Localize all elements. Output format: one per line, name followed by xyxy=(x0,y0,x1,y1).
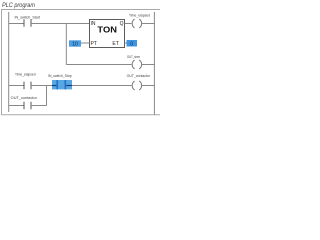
svg-text:Time_elapsed: Time_elapsed xyxy=(15,73,36,77)
svg-text:OUT_contactor: OUT_contactor xyxy=(11,96,38,100)
wire OUT_siren branch xyxy=(66,64,131,66)
svg-text:TON: TON xyxy=(97,25,117,35)
wire rung2 right xyxy=(72,85,132,87)
svg-text:OUT_siren: OUT_siren xyxy=(127,55,140,59)
svg-text:10: 10 xyxy=(72,42,78,48)
frame xyxy=(2,10,161,116)
contact IN_switch_Stop highlighted xyxy=(52,80,72,89)
wire rung1 left xyxy=(9,23,24,25)
value 0 box xyxy=(127,40,138,47)
coil OUT_siren xyxy=(132,60,134,69)
wire Q stub xyxy=(125,23,132,25)
left rail xyxy=(8,12,10,112)
wire coil1 to rail xyxy=(142,23,155,25)
wire ET stub xyxy=(125,42,127,44)
wire rung2 mid xyxy=(31,85,52,87)
wire siren coil to rail xyxy=(142,64,155,66)
wire rung1 to TON xyxy=(31,23,90,25)
svg-text:Time_elapsed: Time_elapsed xyxy=(129,13,150,17)
wire seal branch left xyxy=(9,105,24,107)
coil Time_elapsed xyxy=(132,19,134,28)
wire coil2 to rail xyxy=(142,85,155,87)
contact IN_switch_Start xyxy=(23,19,25,27)
coil OUT_contactor xyxy=(132,81,134,90)
wire rung2 left xyxy=(9,85,24,87)
svg-text:IN: IN xyxy=(91,21,96,27)
TON block U1 xyxy=(90,20,125,48)
svg-text:0: 0 xyxy=(130,42,133,48)
right rail xyxy=(153,12,155,115)
svg-text:ET: ET xyxy=(112,41,118,47)
contact OUT_contactor seal-in xyxy=(23,102,25,110)
value 10 box xyxy=(69,40,81,46)
svg-text:IN_switch_Start: IN_switch_Start xyxy=(15,15,41,19)
contact Time_elapsed xyxy=(23,82,25,90)
svg-text:PLC program: PLC program xyxy=(2,2,36,9)
wire 10 to PT xyxy=(81,42,90,44)
svg-text:Q: Q xyxy=(120,21,124,27)
svg-text:IN_switch_Stop: IN_switch_Stop xyxy=(48,74,72,78)
wire seal branch right xyxy=(31,105,47,107)
svg-text:PT: PT xyxy=(91,41,97,47)
wire branch down xyxy=(65,24,67,65)
wire parallel join vertical xyxy=(46,86,48,106)
svg-text:OUT_contactor: OUT_contactor xyxy=(127,74,151,78)
